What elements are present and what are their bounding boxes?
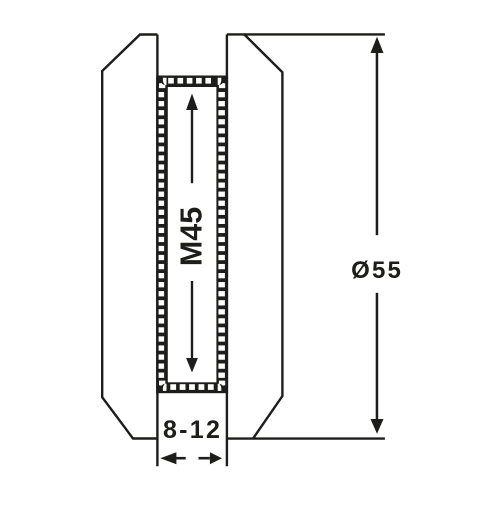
svg-text:8-12: 8-12 (163, 416, 222, 444)
svg-text:M45: M45 (175, 207, 209, 266)
svg-text:Ø55: Ø55 (351, 257, 403, 284)
